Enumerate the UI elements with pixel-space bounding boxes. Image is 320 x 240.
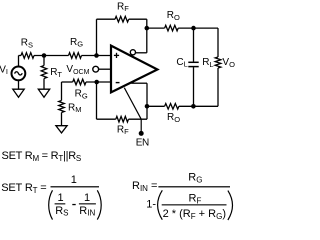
node CL bottom [191,104,196,109]
source VI [12,67,26,81]
wire CL top [193,28,195,62]
resistor RO bottom [165,104,179,110]
wire top output row [147,27,165,29]
wire RF down to out- [146,19,148,53]
wire RO bottom to RL [179,105,218,107]
ground VI [13,89,24,97]
junction dots [42,26,196,136]
op-amp U1 [111,46,157,93]
wire node A up [96,19,98,55]
svg-text:1: 1 [71,174,77,186]
wire RG lower to op-amp [86,81,111,83]
resistor RG lower [73,79,86,85]
wire RM branch [61,82,63,101]
f3 main bar [158,186,230,187]
svg-text:1-: 1- [146,198,156,210]
svg-text:1: 1 [84,192,90,204]
node RS/RT [42,53,47,58]
EN pin wire [124,88,141,133]
f2 right paren [97,190,101,219]
wire RM to ground [61,113,63,127]
wire VI bottom [18,80,20,89]
wire minus row left [62,81,73,83]
f2 minus [72,204,75,205]
wire RO top to RL [178,27,218,29]
resistor RF bottom [116,116,129,122]
svg-text:EN: EN [136,138,149,149]
wire RF bottom left [97,118,116,120]
resistor RF top [115,16,129,22]
wire to output bubble [135,52,146,54]
f3 inner bar [162,204,227,205]
wire top row left [19,55,22,57]
wire VOCM [99,68,111,70]
ground RT [38,89,49,97]
node out- [145,26,150,31]
output bubble [130,50,135,55]
wire RT to ground [43,79,45,90]
resistor RS [21,53,34,59]
f3 right paren [228,191,233,220]
wire RS to RG [34,55,69,57]
node +in [94,53,99,58]
node -in [94,80,99,85]
f2 main bar [51,186,100,187]
wire RT branch [43,56,45,66]
wire RF top left [97,18,116,20]
wire RF bottom right [129,118,148,120]
wire CL bottom [193,67,195,106]
wire out+ vertical [146,83,148,119]
wire RG to op-amp [82,55,111,57]
svg-text:1: 1 [58,192,64,204]
terminal VOCM [93,66,99,72]
resistor RL [215,57,221,68]
ground RM [56,126,67,133]
wire RL bottom [217,68,219,106]
resistor RM [59,101,65,113]
node CL top [191,26,196,31]
minus sign [116,82,120,84]
resistor RO top [165,25,179,31]
node out+ [145,104,150,109]
wire RL top [217,28,219,57]
wire out+ to op-amp [131,82,147,84]
f2 left paren [49,190,53,219]
resistor RG top [69,53,82,59]
wire VI top [18,56,20,67]
wire RF top right [129,18,147,20]
capacitor CL plates [188,62,198,66]
wire node B down [96,82,98,119]
f3 left paren [158,190,163,219]
plus sign [114,53,119,58]
wire bottom output row [147,105,165,107]
svg-text:SET RM = RT||RS: SET RM = RT||RS [2,150,82,163]
EN terminal [139,131,144,136]
svg-text:SET RT =: SET RT = [1,182,46,195]
resistor RT [41,66,47,79]
